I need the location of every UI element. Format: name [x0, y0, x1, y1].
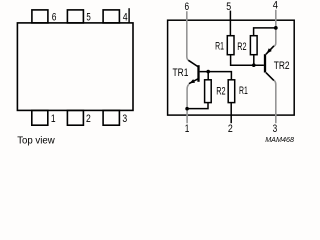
pin 6 tab [32, 10, 48, 23]
svg-text:TR1: TR1 [173, 67, 189, 79]
svg-text:MAM468: MAM468 [265, 135, 295, 144]
junction dot pin4/R2 [274, 26, 278, 30]
svg-text:R2: R2 [216, 85, 225, 97]
svg-text:Top view: Top view [17, 136, 55, 147]
svg-text:2: 2 [228, 123, 233, 135]
pin 5 tab [67, 10, 83, 23]
svg-text:1: 1 [51, 113, 56, 125]
svg-text:R1: R1 [239, 85, 248, 97]
pin 6 lead to TR1 collector [187, 11, 189, 60]
svg-text:6: 6 [52, 12, 57, 24]
pin 2 lead from lower R1 bottom [230, 103, 232, 124]
junction dot TR1 base/R2 [206, 70, 210, 74]
svg-text:1: 1 [185, 123, 190, 135]
svg-text:4: 4 [123, 12, 128, 24]
TR1 emitter arrow [190, 79, 196, 83]
svg-text:TR2: TR2 [274, 60, 290, 72]
wire: upper R2 bottom stub [253, 55, 255, 65]
pin 3 tab [103, 110, 119, 125]
circuit box [168, 20, 295, 115]
pin 4 lead to TR2 emitter [274, 10, 276, 46]
resistor R1 (upper) [227, 36, 234, 55]
pin 1 lead from TR1 emitter [187, 84, 189, 123]
pin 5 lead to upper R1 top [229, 11, 231, 36]
wire: TR1 base to lower resistors [200, 72, 232, 80]
pin 4 tab [103, 10, 119, 23]
transistor TR2 (PNP) [265, 46, 274, 81]
resistor R2 (upper) [250, 36, 257, 55]
svg-text:5: 5 [86, 11, 90, 23]
TR2 emitter arrow [267, 48, 272, 53]
transistor TR1 (NPN) [188, 60, 198, 83]
wire: lower R2 top stub [207, 72, 209, 80]
package body [17, 23, 133, 111]
junction dot TR2 base/R2 [252, 63, 256, 67]
gray pin leads [187, 10, 276, 123]
svg-text:2: 2 [86, 113, 91, 125]
resistor R2 (lower) [205, 80, 212, 103]
black wiring [187, 11, 276, 124]
svg-text:3: 3 [273, 123, 278, 135]
svg-text:R2: R2 [237, 41, 246, 53]
resistor R1 (lower) [228, 80, 235, 103]
pin 2 tab [67, 110, 83, 125]
wire: lower R2 bottom to pin1 lead [187, 103, 208, 109]
svg-text:R1: R1 [215, 41, 224, 53]
pin 3 lead from TR2 collector [274, 80, 276, 123]
wire: upper R1 bottom to TR2 base [231, 55, 264, 65]
pin 4 index mark [128, 8, 130, 23]
wire: upper R2 top to pin4 lead [254, 28, 276, 36]
pin 1 tab [32, 110, 48, 125]
junction dot pin1/R2 [185, 107, 189, 111]
svg-text:3: 3 [122, 113, 127, 125]
